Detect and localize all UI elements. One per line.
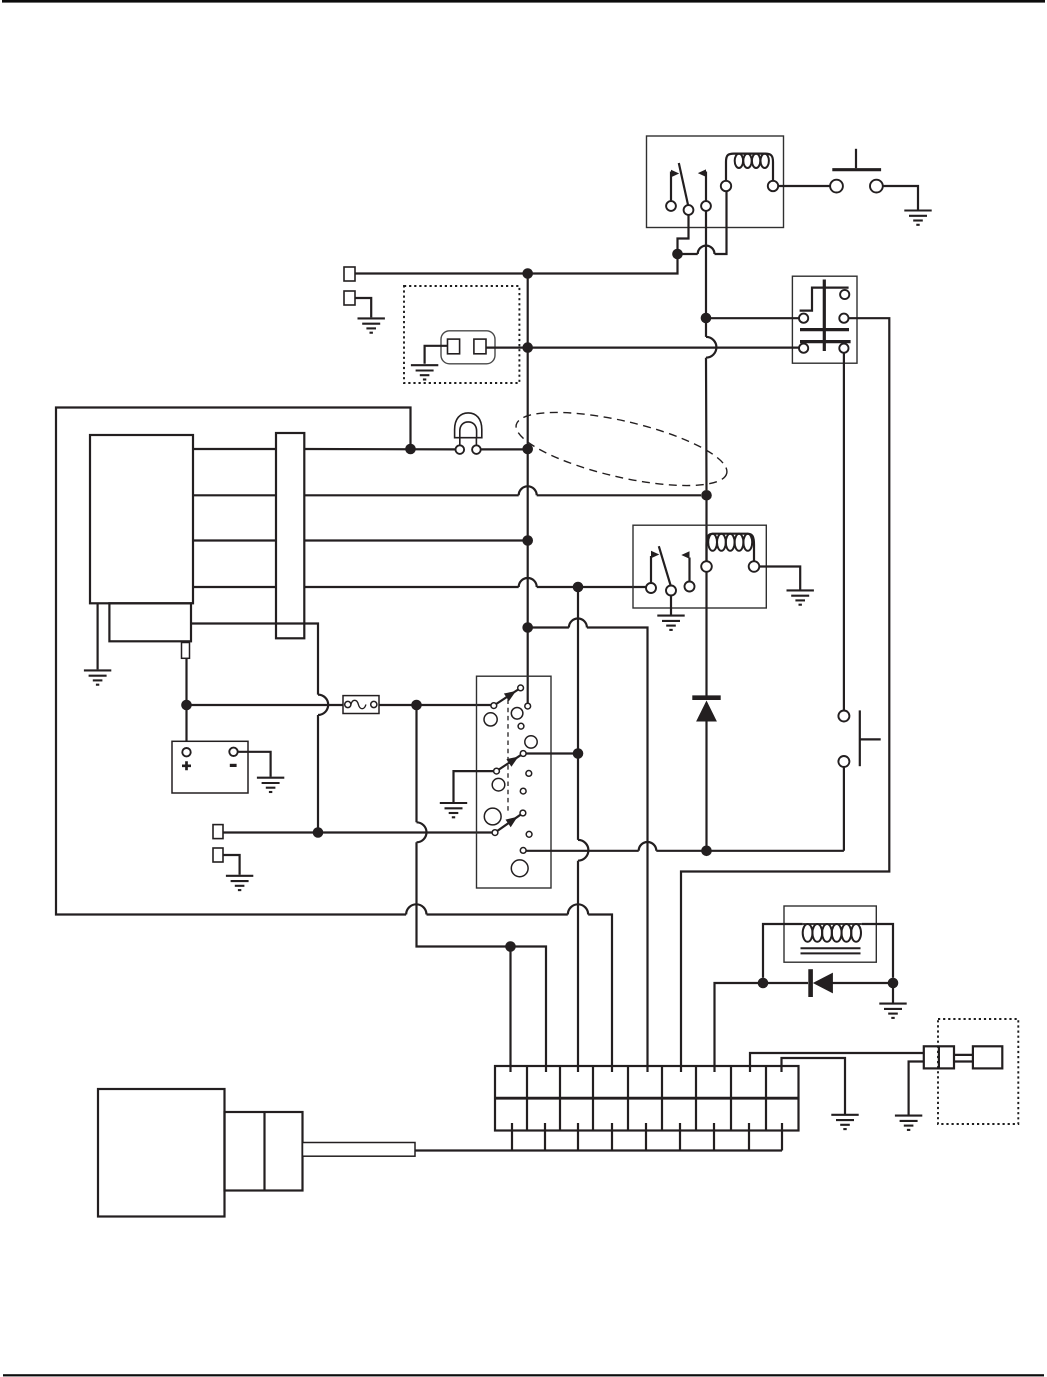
- ground G1: [904, 211, 931, 225]
- battery B1 box: [172, 741, 248, 793]
- relay K2 contact 2 flag: [681, 551, 689, 559]
- wire P2 lower pin to ground: [909, 1062, 924, 1115]
- relay K2 contact terminal circle 1: [646, 583, 656, 593]
- header bar: [2, 0, 1045, 3]
- wire relay K1 coil to start button: [778, 185, 830, 187]
- relay K1 box: [647, 136, 784, 228]
- diode D2 cathode bar: [692, 695, 720, 700]
- relay K1 coil terminal circle 5: [768, 181, 778, 191]
- key switch circle L: [484, 713, 497, 726]
- fuse F1 end circle right: [371, 701, 377, 707]
- junction J11: [758, 978, 769, 989]
- diode D3 triangle: [813, 973, 833, 994]
- connector P1 shell: [441, 331, 495, 364]
- wire start button to ground: [883, 186, 918, 210]
- vertical wire J2 to relay K2 coil with hop at y347: [706, 322, 716, 490]
- engine block: [98, 1089, 225, 1217]
- starter housing: [225, 1112, 303, 1191]
- seat switch S3 contact circle bottom: [838, 756, 849, 767]
- interlock switch S2 hook contact: [800, 288, 849, 311]
- wire W5 from R2 down with hop: [191, 624, 328, 828]
- fuse F1 end circle left: [345, 701, 351, 707]
- interlock switch S2 terminal circle mid-left: [799, 314, 808, 323]
- wire T2 to ground: [355, 298, 371, 317]
- wire T3 to key switch: [223, 831, 492, 833]
- vertical bus wire V1: [527, 274, 529, 704]
- wire battery feed to fuse and key switch: [187, 704, 491, 706]
- wire J7 to K2 area drop to terminal strip with hop over V1 at 578: [532, 619, 648, 1073]
- wire W4 left segment: [193, 586, 276, 588]
- key switch circle O: [492, 778, 505, 791]
- starter cable sleeve: [303, 1143, 416, 1157]
- key switch blade 2: [499, 755, 521, 769]
- wire T1 to J1 riser: [355, 254, 678, 274]
- wire J1 to coil pin with hop: [681, 191, 727, 254]
- wire W4 right segment with hop to relay K2: [304, 578, 646, 587]
- junction J16: [181, 700, 192, 711]
- junction J18: [573, 748, 584, 759]
- relay K2 blade: [659, 546, 671, 586]
- key switch circle M: [511, 708, 523, 720]
- start button S1 stem: [855, 149, 857, 168]
- junction J9: [701, 490, 712, 501]
- key switch circle E: [520, 751, 526, 757]
- junction J10: [701, 846, 712, 857]
- junction J17: [505, 941, 516, 952]
- wire W3 right segment: [304, 539, 523, 541]
- relay K2 coil loops: [708, 534, 752, 551]
- wire terminal 8 riser to connector P2: [750, 1053, 924, 1072]
- fuse F1 element: [351, 700, 366, 708]
- key switch circle G: [526, 771, 532, 777]
- ground G10: [226, 876, 253, 890]
- relay K1 contact terminal circle 3: [701, 201, 711, 211]
- wire J11 left and down to terminal strip: [715, 983, 764, 1072]
- key switch blade 1 arrow: [504, 691, 516, 701]
- terminal T4: [213, 848, 223, 862]
- junction J12: [888, 978, 899, 989]
- relay K1 contact 1 flag: [671, 170, 679, 178]
- wire fuse node down with hop then to J17 and terminal strip: [417, 710, 547, 1072]
- ground G3: [411, 365, 438, 379]
- relay K1 contact terminal circle 1: [666, 201, 676, 211]
- relay K1 coil loops: [735, 154, 769, 168]
- wire diode D2 down to J10: [705, 721, 707, 851]
- connector P2 square pair: [924, 1046, 954, 1068]
- junction J7: [522, 622, 533, 633]
- harness loop wire (top edge, left edge, bottom edge with hops, drop to terminal strip): [56, 408, 612, 1073]
- fuse F1 body: [343, 696, 379, 714]
- wire V x578 from J8 through J18 down with hop: [578, 587, 588, 1072]
- wire S2 mid-right right then down then left then down to terminal block: [681, 318, 889, 1072]
- junction J13: [405, 444, 416, 455]
- interlock switch S2 plunger bar: [823, 280, 826, 352]
- ground G5: [787, 590, 814, 604]
- junction J6: [522, 535, 533, 546]
- wire seat switch bottom down: [843, 767, 845, 851]
- battery negative terminal circle: [229, 748, 237, 756]
- ground G6: [879, 1004, 906, 1018]
- connector block R4: [276, 433, 304, 638]
- relay K1 contact 2 stem: [705, 172, 707, 202]
- ignition coil core lines: [801, 948, 861, 953]
- footer rule: [3, 1374, 1044, 1376]
- junction J5: [522, 444, 533, 455]
- terminal strip mid bar: [495, 1097, 799, 1100]
- wire W2 right segment with hop to J9: [304, 486, 701, 495]
- seat switch S3 plunger bar: [859, 710, 861, 766]
- starter housing divider: [263, 1112, 265, 1191]
- key switch dashed divider: [507, 700, 509, 812]
- wire W1 left segment: [193, 448, 276, 450]
- wire R1 to ground: [96, 603, 98, 669]
- wire F to ground: [454, 771, 494, 802]
- terminal strip dividers: [527, 1066, 766, 1131]
- ground G12: [895, 1116, 922, 1130]
- interlock switch S2 terminal circle mid-right: [839, 314, 848, 323]
- wire relay K2 coil pin down to diode: [705, 572, 707, 696]
- key switch circle A: [518, 685, 524, 691]
- wire relay K2 pin2 to ground: [670, 596, 672, 616]
- interlock switch S2 terminal circle bottom-left: [799, 344, 808, 353]
- wire diode D3 cathode lead: [763, 982, 808, 984]
- wire diode D3 anode lead: [833, 982, 894, 984]
- magneto pickup inner arch: [460, 422, 477, 438]
- wire T4 to ground: [223, 855, 240, 875]
- interlock switch S2 box: [792, 276, 857, 363]
- wire W1 right segment to magneto: [304, 448, 455, 451]
- ignition coil left lead: [763, 924, 803, 978]
- dotted enclosure D2: [938, 1019, 1018, 1124]
- wire relay K2 coil right to ground: [759, 567, 800, 590]
- magneto pickup legs: [460, 438, 477, 446]
- wire terminal 9 riser to ground: [782, 1058, 846, 1114]
- relay K1 contact terminal circle 2: [684, 205, 694, 215]
- wire J2 to S2 mid-left: [711, 317, 799, 319]
- key switch circle R: [520, 810, 526, 816]
- relay K2 coil terminal circle left: [701, 561, 712, 572]
- ignition coil loops: [803, 924, 861, 942]
- module tab R3: [182, 643, 190, 659]
- key switch circle F: [494, 768, 500, 774]
- ground G2: [358, 318, 385, 332]
- battery plus sign: [182, 761, 191, 770]
- relay K2 coil leads: [707, 534, 755, 562]
- key switch blade 3 arrow: [506, 817, 518, 827]
- wire relay K1 pin3 down: [705, 211, 707, 314]
- key switch circle H: [520, 788, 526, 794]
- magneto terminal circle right: [472, 445, 481, 454]
- key switch blade 3: [497, 815, 520, 831]
- ground G7: [84, 670, 111, 684]
- junction J3: [522, 268, 533, 279]
- battery positive terminal circle: [182, 748, 190, 756]
- key switch S4 box: [477, 676, 552, 888]
- terminal strip outer box: [495, 1066, 799, 1131]
- wire P1 right pin to S2 bottom-left: [486, 347, 799, 349]
- key switch blade 2 arrow: [506, 757, 518, 767]
- wire W3 left segment: [193, 539, 276, 541]
- relay K2 contact 2 stem: [688, 558, 690, 582]
- junction J15: [411, 700, 422, 711]
- interlock switch S2 terminal circle bottom-right: [839, 344, 848, 353]
- start button S1 contact circle right: [870, 180, 883, 193]
- ground bus wire to engine: [415, 1149, 782, 1151]
- wire S2 bottom-right down to seat switch: [843, 353, 845, 711]
- wire W2 left segment: [193, 494, 276, 496]
- key switch circle B: [525, 703, 531, 709]
- start button S1 bar: [832, 168, 881, 171]
- terminal T1: [344, 267, 355, 281]
- junction J4: [522, 342, 533, 353]
- ignition coil right lead: [862, 924, 893, 978]
- relay K2 coil terminal circle right: [749, 561, 760, 572]
- dotted enclosure D1: [404, 286, 519, 383]
- battery minus sign: [230, 764, 237, 767]
- key switch circle K: [520, 848, 526, 854]
- junction J2: [701, 313, 712, 324]
- key switch circle Q: [511, 860, 528, 877]
- ground G11: [831, 1115, 858, 1129]
- wire P1 left pin to ground: [425, 346, 448, 364]
- relay K2 contact terminal circle 3: [685, 582, 695, 592]
- interlock switch S2 terminal circle top-right: [840, 290, 849, 299]
- key switch circle C: [491, 703, 497, 709]
- connector P2 link lines: [954, 1055, 973, 1062]
- ignition coil box: [784, 906, 876, 962]
- connector P1 pin square right: [474, 339, 486, 354]
- terminal T2: [344, 291, 355, 305]
- relay K1 contact 2 flag: [698, 169, 706, 177]
- relay K1 movable blade: [679, 163, 688, 205]
- junction J14: [313, 827, 324, 838]
- wire magneto to J5: [481, 448, 523, 450]
- key switch blade 1: [496, 690, 518, 705]
- relay K2 contact 1 stem: [650, 556, 652, 583]
- diode D2 triangle: [696, 701, 717, 722]
- wire E to J18: [526, 752, 573, 754]
- wire battery negative to ground: [238, 752, 271, 777]
- key switch circle D: [518, 723, 524, 729]
- terminal strip bottom stubs: [512, 1123, 782, 1151]
- relay K1 coil terminal circle 4: [721, 181, 731, 191]
- relay K2 box: [633, 525, 766, 608]
- key switch circle Jc: [526, 831, 532, 837]
- junction J8: [573, 582, 584, 593]
- wire relay K1 pin2 drop: [678, 215, 689, 250]
- junction J1: [672, 249, 683, 260]
- relay K1 coil leads: [726, 154, 773, 182]
- start button S1 contact circle left: [830, 180, 843, 193]
- module box R1: [90, 435, 193, 603]
- terminal T3: [213, 825, 223, 839]
- wire J9 into relay K2 coil: [705, 495, 707, 561]
- module lower box R2: [109, 603, 191, 641]
- diode D3 cathode bar: [808, 969, 813, 997]
- relay K1 contact 1 stem: [670, 172, 672, 202]
- ground G4: [657, 616, 684, 630]
- dashed ellipse callout: [510, 397, 733, 500]
- ground G9: [440, 803, 467, 817]
- magneto terminal circle left: [456, 445, 465, 454]
- wire module tab to battery positive: [185, 658, 187, 748]
- relay K2 contact terminal circle 2: [666, 586, 676, 596]
- connector P2 square pair divider: [938, 1046, 940, 1068]
- magneto pickup outer arch: [455, 413, 482, 438]
- wire key switch K to seat switch branch with hop at x647: [526, 842, 844, 851]
- connector P1 pin square left: [448, 339, 460, 354]
- interlock switch S2 contact bar lower: [800, 340, 851, 343]
- key switch circle N: [525, 736, 537, 748]
- interlock switch S2 contact bar upper: [800, 328, 849, 331]
- key switch circle I: [492, 830, 498, 836]
- wire J17 down to terminal strip: [509, 947, 511, 1073]
- connector P2 square right: [973, 1046, 1002, 1068]
- relay K2 contact 1 flag: [651, 551, 659, 559]
- seat switch S3 contact circle top: [838, 711, 849, 722]
- key switch circle P: [484, 808, 501, 825]
- ignition coil winding top line: [803, 923, 862, 925]
- wire J12 to ground: [892, 983, 894, 1003]
- seat switch S3 plunger tick: [860, 738, 881, 740]
- ground G8: [257, 778, 284, 792]
